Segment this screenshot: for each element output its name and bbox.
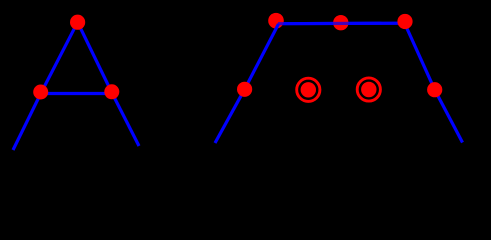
wire: right graph edge bottomleft-topleft bbox=[245, 24, 279, 89]
node: right graph top-left vertex (under overlay edge) bbox=[268, 13, 284, 29]
node: circled vertex 2 inner disc bbox=[361, 82, 376, 97]
wire: left graph edge apex-bottomright bbox=[78, 22, 112, 93]
node: right graph bottom-right vertex bbox=[427, 82, 442, 97]
wire: left graph edge apex-bottomleft bbox=[41, 22, 78, 93]
wire: left graph right half-edge leg bbox=[112, 93, 139, 146]
node: circled vertex 2 outer ring bbox=[357, 78, 380, 101]
wire: left graph bottom horizontal edge bbox=[41, 92, 112, 95]
node: circled vertex 1 inner disc bbox=[301, 82, 316, 97]
wire: right graph edge topright-bottomright bbox=[405, 23, 435, 90]
node: left graph apex vertex bbox=[70, 15, 85, 30]
wire: right graph top horizontal edge (translucent overlay crossing vertices) bbox=[278, 22, 404, 26]
node: circled vertex 1 outer ring bbox=[297, 78, 320, 101]
wire: right graph top horizontal edge (base layer) bbox=[278, 22, 404, 26]
node: right graph top-right vertex bbox=[397, 14, 412, 29]
node: right graph top-middle vertex (under overlay edge) bbox=[333, 15, 348, 30]
wire: right graph right half-edge leg bbox=[435, 90, 463, 143]
wire: left graph left half-edge leg bbox=[13, 93, 41, 150]
node: left graph bottom-left vertex bbox=[33, 85, 48, 100]
node: right graph bottom-left vertex bbox=[237, 82, 252, 97]
node: left graph bottom-right vertex bbox=[104, 84, 119, 99]
wire: right graph left half-edge leg bbox=[215, 89, 245, 143]
